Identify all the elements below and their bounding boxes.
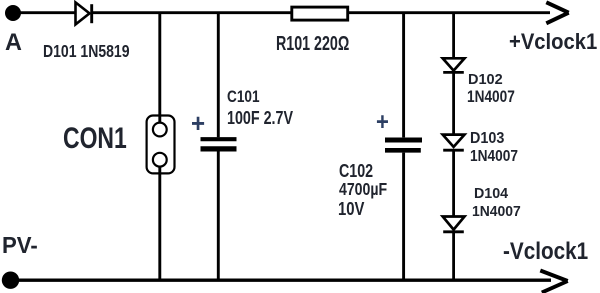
capacitor C102 value label (339, 181, 387, 198)
wire: top rail junction down to CON1 pin 1 (158, 13, 161, 129)
capacitor C101 (201, 139, 237, 149)
wire: top rail junction down to C101 (217, 13, 220, 138)
node A (5, 5, 21, 21)
diode D101 value label (43, 43, 129, 61)
wire top rail: R101 to +Vclock1 arrow (348, 11, 550, 14)
node A label (5, 32, 22, 56)
+Vclock1 arrow head (546, 2, 568, 23)
diode D104 (443, 217, 465, 232)
wire: C102 down to bottom rail (402, 153, 405, 280)
CON1 pin 2 circle (153, 153, 167, 167)
wire bottom rail (10, 279, 551, 282)
capacitor C102 name label (339, 162, 373, 181)
diode D103 name label (470, 131, 504, 147)
wire: D104 cathode to bottom rail (452, 232, 455, 280)
capacitor C101 polarity + (191, 110, 205, 136)
resistor R101 value label (276, 34, 349, 54)
connector CON1 body (147, 116, 175, 174)
connector CON1 label (63, 124, 127, 153)
wire: CON1 pin 2 down to bottom rail (158, 160, 161, 280)
diode D102 value label (467, 89, 515, 106)
wire: C101 down to bottom rail (217, 152, 220, 281)
wire: D102 cathode to D103 anode (452, 72, 455, 134)
diode D103 (443, 135, 465, 151)
wire: top rail junction down to C102 (402, 13, 405, 138)
capacitor C101 value label (227, 109, 293, 127)
diode D104 name label (474, 187, 508, 202)
capacitor C102 (385, 140, 422, 150)
node PV- (2, 272, 19, 289)
diode D103 value label (470, 149, 518, 165)
capacitor C102 polarity + (376, 110, 389, 135)
wire top rail: D101 cathode to resistor R101 (92, 11, 291, 14)
resistor R101 (292, 7, 348, 20)
wire: D103 cathode to D104 anode (452, 150, 455, 216)
wire top rail: node A to D101 anode (13, 11, 76, 14)
net +Vclock1 label (509, 31, 597, 53)
diode D101 (76, 2, 92, 24)
diode D102 (443, 58, 465, 72)
capacitor C101 name label (227, 89, 260, 105)
CON1 pin 1 circle (153, 123, 167, 137)
-Vclock1 arrow head (540, 271, 567, 293)
capacitor C102 voltage label (338, 200, 364, 219)
diode D104 value label (472, 205, 521, 220)
diode D102 name label (468, 72, 503, 87)
wire: top rail junction down to D102 anode (452, 13, 455, 58)
node PV- label (2, 234, 38, 257)
net -Vclock1 label (503, 241, 588, 265)
